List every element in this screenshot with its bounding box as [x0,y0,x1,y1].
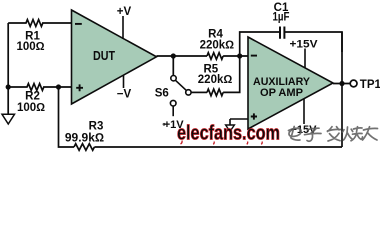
char you [363,127,378,140]
svg-text:DUT: DUT [93,49,115,63]
power +15V stub on aux op amp [304,49,306,69]
char shao [343,127,363,141]
svg-text:1µF: 1µF [273,11,290,23]
wire: switch lower throw stub to +-1V source [172,106,174,116]
char zi [305,128,322,141]
char dian [289,127,302,141]
watermark artifacts under logo [181,141,263,145]
svg-text:220kΩ: 220kΩ [200,40,235,52]
wire: node B up and across top to output bus (C1 branch) [240,32,342,56]
terminal TP1 [350,80,357,87]
wire: R5 up to node B [223,56,240,92]
svg-text:OP AMP: OP AMP [260,87,303,99]
pin: DUT inverting input minus [75,23,82,25]
label R3 value [65,121,104,145]
svg-text:+V: +V [117,6,132,18]
wire: feedback bottom run to TP1 bus [94,146,342,148]
resistor R4 [207,53,223,60]
svg-text:99.9kΩ: 99.9kΩ [65,130,104,144]
label R1 value [16,31,44,53]
svg-text:220kΩ: 220kΩ [198,74,233,86]
pin: aux non-inverting input plus [251,113,257,119]
power -V stub on DUT [123,75,125,88]
svg-text:elecfans.com: elecfans.com [177,121,280,144]
label R2 value [17,91,45,114]
node: R3 tap junction dot on DUT + input wire [56,84,61,89]
op-amp U2 auxiliary (triangle) [248,37,333,129]
node: aux output junction dot [339,81,344,86]
op-amp DUT (triangle) [72,10,157,104]
pin: aux inverting input minus [251,55,257,57]
wire: aux non-inverting input to ground [230,119,248,125]
wire: node A down to switch S6 [172,56,174,75]
watermark chinese characters (drawn strokes) [289,127,378,142]
power +V stub on DUT [122,16,124,39]
svg-text:−V: −V [117,89,132,101]
label C1 value [273,2,290,23]
wire: DUT output to R4 [157,55,208,57]
label +1V [163,119,185,131]
svg-text:R2: R2 [25,91,40,103]
pin: DUT non-inverting input plus [76,84,83,91]
svg-text:TP1: TP1 [360,79,380,91]
wire: left vertical bus x=8 from R1 wire down to ground [7,23,9,114]
wire: R4 to aux inverting input [223,55,248,57]
resistor R1 [8,20,71,27]
resistor R5 [207,89,223,96]
capacitor C1 [280,27,284,39]
wire: R3 tap down from DUT + input node [59,87,75,147]
label R5 value [198,63,233,85]
svg-text:+15V: +15V [290,38,319,50]
wire: right vertical from top wire down to bottom feedback wire [341,32,343,147]
node A: DUT output junction dot [171,53,176,58]
power -15V stub on aux op amp [303,99,305,124]
wire: switch throw to resistor R5 [191,91,207,93]
ground (left) [2,114,15,124]
char fa [328,127,341,141]
svg-text:S6: S6 [155,87,169,99]
svg-text:R4: R4 [208,28,223,40]
switch S6 [170,76,191,106]
wire: aux output to TP1 [333,83,350,85]
ground (aux input) [226,125,235,131]
label R4 value [200,28,235,51]
svg-text:100Ω: 100Ω [16,41,44,53]
node B: aux inverting input junction dot [237,53,242,58]
node: junction dot left bus / R2 [6,84,11,89]
resistor R2 [8,84,71,91]
label AUXILIARY OP AMP [253,76,311,99]
resistor R3 [74,144,94,151]
svg-text:100Ω: 100Ω [17,102,45,114]
